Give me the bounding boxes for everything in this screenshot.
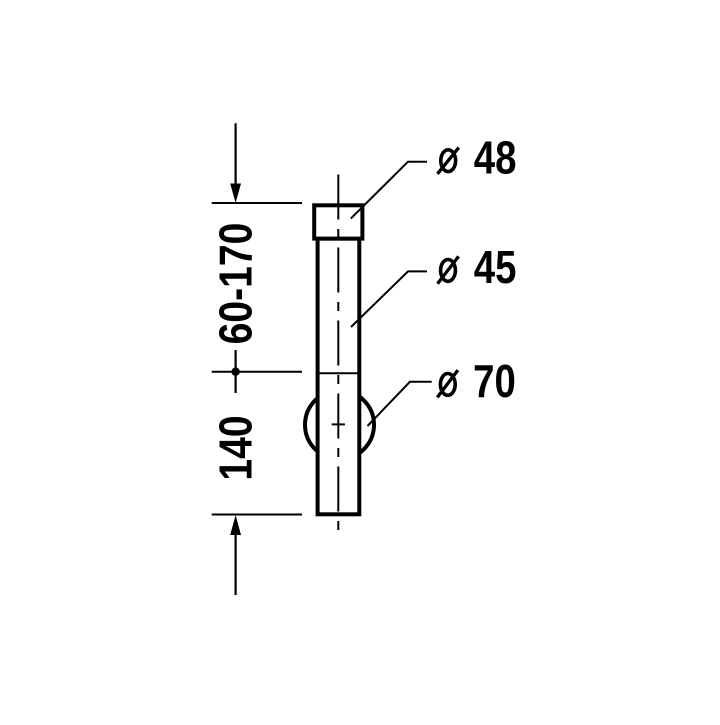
dimension arrow bottom <box>230 515 241 595</box>
extension tick middle <box>212 371 302 373</box>
leader o70 <box>368 382 432 426</box>
leader o45 <box>351 271 427 327</box>
extension tick top <box>212 202 302 204</box>
pipe joint line <box>316 372 361 374</box>
label o45 <box>438 242 517 293</box>
svg-text:70: 70 <box>473 356 516 407</box>
svg-text:140: 140 <box>210 415 262 480</box>
pipe body <box>318 239 360 515</box>
svg-text:45: 45 <box>474 242 517 293</box>
pipe cap <box>314 205 362 238</box>
dimension stub with dot <box>231 350 239 393</box>
label o70 <box>437 356 516 407</box>
centerline <box>337 175 339 539</box>
svg-text:60-170: 60-170 <box>210 223 262 345</box>
escutcheon circle o70 <box>305 390 374 459</box>
circle center cross <box>332 423 345 425</box>
svg-text:48: 48 <box>474 132 517 183</box>
leader o48 <box>351 162 427 219</box>
extension tick bottom <box>212 514 302 516</box>
dimension arrow top <box>230 123 241 203</box>
label o48 <box>438 132 517 183</box>
